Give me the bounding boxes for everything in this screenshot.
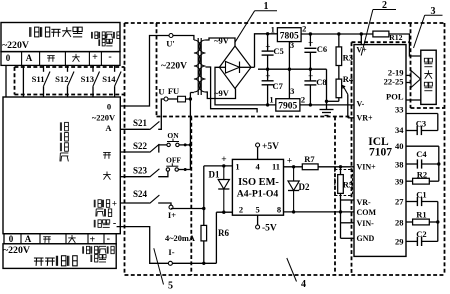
svg-text:VR-: VR- — [357, 198, 372, 207]
svg-text:27: 27 — [395, 197, 404, 207]
svg-text:+: + — [221, 155, 226, 165]
svg-text:VR+: VR+ — [357, 113, 374, 122]
switch S22 — [120, 151, 149, 153]
svg-text:7905: 7905 — [278, 101, 297, 111]
svg-text:1: 1 — [271, 25, 275, 35]
svg-text:A: A — [25, 234, 32, 244]
capacitor C8 — [309, 69, 311, 81]
svg-text:C8: C8 — [316, 77, 326, 87]
dashed box 2 top edge — [352, 41, 410, 43]
resistor R6 — [203, 166, 205, 226]
terminal socket box — [3, 97, 120, 234]
svg-text:C4: C4 — [416, 149, 427, 159]
terminal -5V — [257, 215, 259, 225]
ISO module box — [232, 159, 283, 215]
terminal U with fuse FU — [164, 97, 168, 101]
diode D2 — [293, 167, 295, 181]
dashed enclosure outer box (test unit) — [125, 22, 445, 24]
svg-text:1: 1 — [264, 1, 269, 12]
svg-text:+: + — [287, 157, 292, 167]
svg-text:R2: R2 — [417, 169, 427, 179]
svg-text:+: + — [265, 41, 270, 51]
dashed box around R5 — [335, 169, 353, 171]
regulator 7905 — [276, 99, 300, 111]
svg-text:S24: S24 — [133, 189, 148, 199]
wire -5V rail 7905 to ICL — [300, 104, 354, 106]
wire common node vertical — [340, 193, 342, 238]
svg-text:S12: S12 — [55, 74, 68, 84]
label 4 leader — [287, 258, 297, 282]
capacitor C7 — [267, 69, 269, 81]
display title — [424, 58, 428, 62]
svg-text:POL: POL — [386, 92, 404, 102]
label 1 leader — [255, 10, 277, 12]
svg-text:I+: I+ — [168, 210, 176, 220]
svg-text:D1: D1 — [209, 169, 220, 179]
switch S14 — [114, 65, 116, 71]
capacitor C3 — [406, 130, 417, 132]
svg-text:4: 4 — [301, 279, 306, 290]
wire POL to display — [406, 99, 421, 101]
dashed box 4 right edge — [334, 117, 336, 276]
svg-text:2: 2 — [302, 24, 306, 34]
svg-text:22-25: 22-25 — [384, 76, 404, 86]
resistor R3 — [338, 34, 340, 47]
wire 7805 output rail — [301, 33, 373, 35]
label 5 leader — [154, 248, 164, 284]
wire bridge plus to 7805 — [255, 34, 278, 68]
svg-text:GND: GND — [357, 234, 375, 243]
switch S21 — [120, 128, 149, 130]
svg-text:2: 2 — [301, 95, 305, 105]
svg-text:40: 40 — [395, 141, 404, 151]
svg-text:D2: D2 — [299, 182, 310, 192]
dashed divider box5/box4 — [190, 117, 192, 276]
svg-text:34: 34 — [395, 125, 404, 135]
wire VR+ to R4 wiper arrow — [348, 117, 354, 119]
wire pin33 — [406, 113, 438, 115]
switch S11 — [43, 65, 45, 71]
svg-text:S13: S13 — [81, 74, 94, 84]
svg-text:+: + — [92, 52, 98, 63]
svg-text:R3: R3 — [343, 53, 353, 63]
svg-text:7107: 7107 — [369, 146, 392, 158]
wire secondary top to bridge — [206, 38, 236, 46]
svg-text:~220V: ~220V — [92, 112, 116, 122]
capacitor C1 — [406, 201, 417, 203]
wire servo A to socket — [22, 65, 24, 97]
actuator title — [34, 257, 44, 259]
resistor R4 potentiometer — [338, 66, 340, 80]
resistor R1 — [406, 221, 413, 223]
svg-text:C3: C3 — [416, 118, 426, 128]
svg-text:R7: R7 — [304, 154, 315, 164]
svg-text:C7: C7 — [273, 81, 284, 91]
servo amplifier title — [29, 27, 31, 37]
wire I+ to R6 node — [170, 208, 172, 211]
wire servo 0 to socket — [5, 65, 7, 97]
terminal I- — [168, 261, 172, 265]
transformer secondary coil — [199, 40, 206, 92]
dashed box 1 (power supply) left edge — [156, 23, 158, 117]
socket label feedback — [96, 208, 103, 210]
svg-text:C5: C5 — [273, 46, 283, 56]
svg-text:S11: S11 — [32, 74, 45, 84]
svg-text:1: 1 — [235, 161, 239, 171]
switch S12 — [67, 65, 69, 71]
svg-text:ON: ON — [167, 131, 179, 140]
wire socket minus to I- — [117, 227, 169, 264]
svg-text:4: 4 — [255, 161, 260, 171]
svg-text:S21: S21 — [133, 118, 148, 128]
svg-text:C1: C1 — [416, 189, 426, 199]
svg-text:C2: C2 — [416, 229, 426, 239]
svg-text:39: 39 — [395, 176, 404, 186]
svg-text:29: 29 — [395, 236, 404, 246]
svg-text:ISO EM-: ISO EM- — [238, 177, 279, 188]
wire S21 to U — [158, 99, 164, 129]
wire input+ row to ISO pin1 — [204, 165, 233, 167]
oscillator bus — [438, 146, 440, 181]
IC ICL7107 box — [354, 45, 406, 257]
actuator valve feedback label — [82, 246, 84, 253]
svg-text:5: 5 — [255, 205, 259, 215]
svg-text:FU: FU — [168, 86, 179, 96]
svg-text:R1: R1 — [416, 210, 426, 220]
svg-text:VIN-: VIN- — [357, 219, 375, 228]
wire U' to transformer — [173, 36, 194, 41]
svg-text:A: A — [105, 123, 112, 133]
svg-text:0: 0 — [107, 101, 111, 111]
wire fuse junction vertical — [189, 93, 191, 170]
capacitor C6 — [309, 34, 311, 46]
servo amplifier box — [1, 23, 120, 52]
wire secondary center tap — [206, 67, 258, 113]
svg-text:0: 0 — [6, 53, 11, 63]
switch S24 — [120, 202, 149, 204]
socket label kai — [103, 151, 111, 153]
svg-text:1: 1 — [269, 95, 273, 105]
svg-text:~220V: ~220V — [3, 245, 30, 256]
svg-text:-: - — [113, 218, 116, 229]
wire bridge left corner to 7905 input — [215, 67, 276, 105]
transformer core — [197, 38, 199, 95]
svg-text:-: - — [107, 234, 110, 245]
capacitor C2 — [406, 240, 417, 242]
svg-text:A: A — [26, 53, 33, 63]
svg-text:3: 3 — [431, 6, 436, 17]
wire S22 to ON button — [158, 145, 167, 152]
svg-text:~9V: ~9V — [214, 36, 230, 46]
wire V+ stem — [360, 34, 362, 45]
svg-text:2: 2 — [382, 0, 387, 11]
resistor R7 — [302, 164, 318, 170]
pushbutton ON — [167, 143, 170, 146]
pushbutton OFF — [166, 168, 169, 171]
svg-text:U: U — [158, 86, 164, 96]
svg-text:3: 3 — [290, 86, 294, 96]
wire S24 to I+ — [158, 203, 171, 205]
diode D1 — [223, 166, 225, 180]
dashed box 2 left edge — [351, 42, 353, 275]
svg-text:+: + — [112, 199, 117, 209]
svg-text:11: 11 — [272, 161, 280, 171]
svg-text:+5V: +5V — [262, 142, 279, 152]
socket label valve+ — [93, 200, 95, 208]
terminal socket vertical title — [59, 122, 61, 130]
wire S23 to OFF button — [158, 171, 168, 176]
resistor R12 — [373, 31, 389, 37]
wire secondary bottom to bridge — [206, 89, 236, 99]
dashed box around switches S11-S14 — [15, 66, 125, 68]
svg-text:C6: C6 — [317, 44, 327, 54]
svg-text:+: + — [308, 71, 313, 81]
dashed box 3 bottom edge — [411, 107, 445, 109]
svg-text:33: 33 — [395, 105, 404, 115]
ground rail 0V — [258, 68, 327, 70]
wire R7 to VIN+ — [318, 166, 354, 168]
svg-text:COM: COM — [357, 208, 377, 217]
svg-text:+: + — [265, 71, 270, 81]
socket label signal- — [93, 220, 95, 228]
label 2 leader — [373, 9, 396, 11]
switch S23 — [120, 176, 149, 178]
svg-text:OFF: OFF — [166, 156, 181, 165]
regulator 7805 ground stem — [288, 42, 290, 99]
wire socket 0 to U' — [120, 36, 169, 107]
svg-text:5: 5 — [168, 281, 173, 292]
wire VR- tap — [341, 199, 355, 201]
svg-text:I-: I- — [168, 247, 174, 257]
svg-text:U': U' — [166, 39, 175, 49]
svg-text:28: 28 — [395, 217, 404, 227]
svg-text:2: 2 — [239, 205, 243, 215]
svg-text:S22: S22 — [133, 141, 148, 151]
svg-text:~220V: ~220V — [161, 62, 187, 72]
capacitor C5 — [266, 32, 269, 35]
svg-text:3: 3 — [290, 40, 294, 50]
svg-text:~220V: ~220V — [2, 40, 29, 51]
svg-text:S14: S14 — [102, 74, 116, 84]
svg-text:-: - — [108, 52, 111, 63]
actuator terminal row — [4, 234, 116, 244]
svg-text:V-: V- — [357, 100, 365, 109]
terminal U' — [169, 34, 173, 38]
integrator bus — [437, 202, 439, 242]
svg-text:0: 0 — [9, 234, 14, 244]
terminal I+ — [169, 205, 173, 209]
arrow ICL to display — [406, 74, 411, 76]
wire I- to ISO pin2 riser — [172, 262, 216, 264]
svg-text:8: 8 — [277, 205, 281, 215]
svg-text:+: + — [308, 37, 313, 47]
switch S13 — [92, 65, 94, 71]
svg-text:A4-P1-O4: A4-P1-O4 — [237, 189, 279, 200]
wire VIN- tap — [341, 222, 355, 224]
display box — [421, 50, 436, 104]
terminal +5V — [257, 147, 259, 159]
wire GND tap — [341, 237, 355, 239]
resistor R5 — [340, 167, 342, 175]
bridge rectifier diamond — [219, 46, 251, 89]
wire ground to R4 — [327, 100, 339, 102]
dashed box 1 bottom edge — [157, 116, 352, 118]
resistor R2 — [406, 180, 413, 182]
capacitor C4 — [406, 163, 417, 165]
svg-text:R6: R6 — [218, 228, 229, 238]
dashed box 3 left edge — [410, 23, 412, 108]
ground symbol — [326, 69, 328, 109]
wire ISO pin8 to COM — [284, 211, 355, 213]
servo amplifier terminal row — [1, 52, 120, 66]
svg-text:R5: R5 — [343, 180, 353, 190]
svg-text:-5V: -5V — [262, 224, 277, 234]
svg-text:4~20mA: 4~20mA — [165, 234, 195, 243]
svg-text:~9V: ~9V — [214, 88, 230, 98]
wire R12 to display — [389, 34, 421, 56]
socket label guan — [103, 174, 111, 176]
wire pin40 — [406, 145, 439, 147]
svg-text:S23: S23 — [133, 165, 148, 175]
regulator 7805 — [277, 28, 301, 42]
svg-text:38: 38 — [395, 160, 404, 170]
svg-text:V+: V+ — [356, 46, 367, 55]
svg-text:R4: R4 — [343, 74, 354, 84]
actuator box — [3, 244, 116, 269]
svg-text:VIN+: VIN+ — [357, 163, 377, 172]
wire ISO pin2 row — [216, 211, 232, 213]
label 3 leader — [425, 14, 443, 16]
transformer T1 primary coil — [194, 40, 201, 92]
wire ISO pin11 output — [284, 166, 303, 168]
servo amplifier valve feedback label — [91, 32, 93, 39]
